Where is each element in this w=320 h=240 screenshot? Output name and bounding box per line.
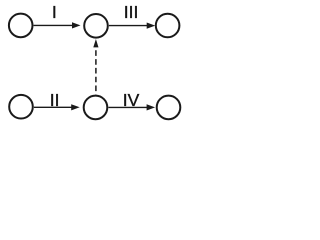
wire dashed arrow: E up to B — [93, 39, 98, 94]
wire arrow I: A to B — [34, 22, 81, 28]
node A (top-left circle) — [9, 14, 33, 38]
node B (top-middle circle) — [84, 14, 108, 38]
wire arrow IV: E to F — [108, 104, 155, 110]
node E (bottom-middle circle) — [84, 96, 108, 120]
wire arrow III: B to C — [109, 23, 155, 29]
svg-text:IV: IV — [123, 90, 140, 110]
svg-text:III: III — [124, 2, 139, 22]
wire arrow II: D to E — [34, 104, 80, 110]
node D (bottom-left circle) — [9, 95, 33, 119]
svg-text:I: I — [52, 2, 57, 22]
svg-text:II: II — [50, 90, 60, 110]
node C (top-right circle) — [156, 14, 180, 38]
node F (bottom-right circle) — [157, 96, 181, 120]
